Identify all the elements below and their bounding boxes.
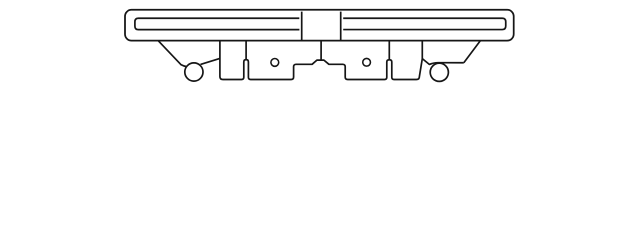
right slot <box>343 18 506 29</box>
middle box right edge <box>340 12 342 41</box>
left connector line from clip to tab <box>201 58 220 64</box>
round clip left <box>185 63 203 81</box>
left slot <box>135 18 300 29</box>
middle box left edge <box>301 12 303 41</box>
stem above notch 2 <box>388 41 390 60</box>
round clip right <box>430 63 448 81</box>
stem above notch 1 <box>245 41 247 60</box>
bar outer outline <box>125 10 514 41</box>
center stem <box>320 41 322 60</box>
lower profile left diagonal into clip <box>158 41 187 67</box>
lower profile right diagonal <box>464 41 481 63</box>
right connector line from tab over clip <box>422 59 464 65</box>
lower profile main run: left tab, notch 1, plateau, step up, center bump, step down, plateau, notch 2, right tab <box>220 41 422 80</box>
hole right <box>363 58 371 66</box>
hole left <box>271 59 279 67</box>
